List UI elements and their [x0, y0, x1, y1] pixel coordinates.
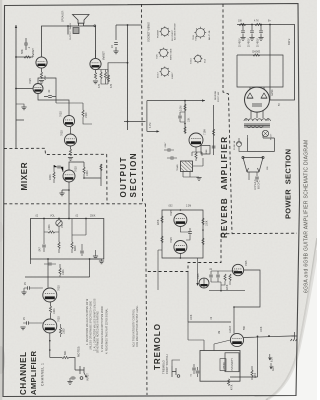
resistor mixer right	[100, 164, 102, 171]
wire to jack	[69, 358, 80, 371]
phase shift cap 2	[216, 271, 220, 282]
svg-text:100K: 100K	[62, 269, 65, 275]
wire transformer taps	[246, 118, 268, 138]
filter cap 3	[258, 25, 263, 41]
svg-text:1M: 1M	[219, 331, 221, 334]
output transformer T1	[73, 28, 79, 34]
foot switch jack	[172, 366, 180, 377]
potentiometer volume	[56, 219, 62, 227]
resistor V1a plate load	[59, 324, 61, 337]
resistor V6 cathode	[195, 152, 197, 159]
svg-text:CHANNEL: CHANNEL	[19, 352, 28, 395]
resistor feedback	[24, 56, 31, 58]
dashed power divider	[223, 4, 232, 234]
resistor power divider r2	[255, 23, 262, 25]
label 10K power	[238, 21, 272, 23]
wire reverb mid rail	[184, 101, 186, 134]
wire reverb pan link	[193, 158, 204, 166]
wire rectifier pins	[250, 87, 264, 118]
ground mixer	[59, 193, 64, 196]
junction B+	[127, 24, 129, 122]
filter cap 2	[249, 25, 254, 41]
wire ground PI link	[16, 104, 24, 107]
svg-text:INPUT: INPUT	[86, 373, 90, 381]
junction feedback dots	[15, 56, 17, 89]
ground V5	[93, 81, 98, 84]
phase inverter V3a	[33, 84, 43, 94]
svg-text:220K: 220K	[49, 174, 52, 180]
capacitor B+ filter	[114, 25, 118, 51]
wire rev rec mids	[180, 227, 190, 259]
resistor screen 2	[104, 72, 106, 79]
svg-text:100K: 100K	[53, 308, 56, 314]
wire mixer plate	[69, 162, 84, 170]
svg-text:FUSE 1A: FUSE 1A	[233, 140, 236, 150]
capacitor trem box 1	[192, 364, 196, 374]
svg-text:2.2M: 2.2M	[186, 206, 191, 208]
svg-text:220K: 220K	[158, 219, 160, 225]
label 115V	[254, 179, 261, 190]
capacitor reverb out2	[167, 156, 177, 160]
svg-text:250: 250	[43, 75, 47, 80]
svg-text:6V6GT: 6V6GT	[31, 48, 35, 57]
power top bus wire	[237, 25, 295, 101]
svg-text:INTENSITY: INTENSITY	[231, 358, 234, 371]
socket view 4	[194, 27, 206, 39]
phase shift resistor 1	[224, 274, 226, 281]
junction OT	[67, 25, 69, 27]
arrow rev out	[196, 283, 198, 286]
label trem labels top	[191, 314, 263, 334]
phase shift resistor 2	[229, 274, 231, 281]
wire V3b to V2	[70, 127, 72, 134]
svg-text:100K: 100K	[261, 326, 263, 332]
wire B+ top link	[116, 24, 142, 26]
reverb recovery loop wire	[162, 210, 203, 258]
wire PI cathode	[38, 94, 69, 116]
svg-text:7025: 7025	[245, 260, 248, 266]
screen resistor cluster bus	[96, 70, 108, 73]
ground chassis right	[291, 332, 298, 341]
junction power bus dots	[242, 24, 271, 26]
resistor 68K input	[62, 356, 69, 358]
power tube V4 6V6	[36, 57, 47, 68]
ground tone	[93, 256, 98, 259]
wire screens to B+	[108, 63, 128, 84]
ground B+ cap	[113, 51, 118, 54]
wire speaker terminal	[84, 25, 94, 27]
wire V5 cathode	[95, 70, 97, 73]
svg-text:NOTES:: NOTES:	[77, 346, 81, 357]
tremolo control inner box 2	[220, 359, 226, 371]
filter cap 1	[240, 25, 245, 41]
wire rev down to trem	[158, 250, 198, 290]
svg-text:WIRE SIDE: WIRE SIDE	[171, 48, 173, 60]
svg-text:AB 4T 4B: AB 4T 4B	[208, 30, 211, 40]
coupling cap PI to V4	[44, 96, 56, 98]
label socket1 right	[172, 23, 177, 41]
ground V4	[39, 81, 44, 84]
junction mixer dots	[68, 177, 85, 191]
svg-text:100K: 100K	[207, 220, 209, 226]
tremolo out tube V8c	[230, 333, 243, 346]
capacitor tone 1	[42, 245, 46, 252]
resistor tone h	[44, 231, 59, 233]
arrow feedback top	[15, 25, 17, 28]
channel triode V1b	[43, 288, 57, 302]
junction channel dots	[47, 258, 90, 260]
svg-text:.047: .047	[39, 247, 42, 252]
wire channel bus top	[31, 259, 90, 266]
dashed power bottom	[221, 232, 297, 235]
capacitor reverb right	[212, 146, 216, 148]
wire trem mid	[209, 288, 245, 291]
svg-text:SPEAKER: SPEAKER	[62, 10, 65, 22]
label OUTPUT SECTION	[119, 153, 138, 197]
capacitor tone 2	[80, 247, 84, 256]
wire rect right	[269, 25, 271, 101]
power transformer T2	[244, 119, 270, 128]
svg-text:1500: 1500	[63, 328, 66, 334]
label 6.3V arrow a	[269, 354, 274, 362]
wire tone mid	[44, 219, 59, 245]
resistor below box	[227, 379, 229, 386]
svg-text:5V: 5V	[279, 103, 281, 106]
wire V1b cathode left	[24, 288, 43, 292]
resistor rev rec r4	[202, 238, 204, 245]
svg-text:6G9A and 6G9B GUITAR AMPLIFIE: 6G9A and 6G9B GUITAR AMPLIFIER SCHEMATIC…	[304, 140, 310, 293]
svg-text:100K: 100K	[86, 170, 89, 176]
wire channel ladder	[25, 266, 90, 288]
capacitor C20	[24, 38, 28, 50]
capacitor reverb out1	[164, 148, 174, 152]
svg-text:7025: 7025	[195, 35, 197, 41]
wire AC plug	[249, 172, 257, 180]
page curl white area bottom right	[266, 238, 317, 400]
note 2	[93, 298, 99, 353]
svg-text:POWER: POWER	[158, 29, 160, 38]
ground jack	[67, 382, 72, 385]
wire grid horizontal	[50, 357, 62, 359]
svg-text:20 450V: 20 450V	[249, 38, 251, 47]
svg-text:REVERB AMPLIFIER: REVERB AMPLIFIER	[220, 137, 229, 238]
wire tone gnd link	[95, 250, 97, 256]
label tremolo foot switch	[162, 354, 170, 374]
speaker SP1	[73, 15, 90, 27]
input jack J1	[80, 366, 87, 379]
svg-text:GZ34: GZ34	[270, 89, 274, 96]
wire mixer cathode	[62, 182, 69, 193]
tremolo osc right wire	[234, 270, 260, 333]
svg-text:SOCKET VIEWS: SOCKET VIEWS	[147, 22, 151, 42]
dashed divider mixer top step	[4, 148, 107, 154]
wire feedback taps	[16, 57, 33, 120]
reverb triode V7b	[174, 241, 187, 254]
svg-text:100K: 100K	[48, 224, 51, 230]
wire PI plate	[38, 78, 56, 103]
svg-text:6800: 6800	[74, 245, 77, 251]
wire V1a down	[49, 333, 51, 358]
svg-text:20 450V: 20 450V	[240, 38, 242, 47]
wire mixer down to tone bus	[68, 190, 70, 219]
svg-text:10K: 10K	[188, 117, 191, 122]
resistor tone v2	[71, 235, 73, 253]
arrow reverb left	[157, 130, 160, 132]
svg-text:CHOKE: CHOKE	[252, 52, 261, 54]
junction reverb top	[184, 100, 186, 102]
resistor rev rec r3	[202, 218, 204, 225]
channel triode V1a	[43, 319, 57, 333]
svg-text:AMP: AMP	[272, 365, 275, 371]
svg-text:7025: 7025	[197, 273, 200, 279]
svg-text:460 V.: 460 V.	[288, 38, 291, 45]
svg-text:470: 470	[110, 83, 113, 88]
svg-text:FOOT SW: FOOT SW	[218, 91, 220, 102]
wire mixer out right	[84, 164, 101, 186]
wire tone links	[72, 219, 86, 248]
label CHANNEL AMPLIFIER	[19, 350, 38, 395]
svg-text:OTHERWISE NOTED 600 V RATING: OTHERWISE NOTED 600 V RATING	[97, 311, 100, 353]
capacitor mixer in	[54, 165, 63, 172]
ground reverb trans	[196, 178, 201, 181]
resistor channel r1	[59, 264, 61, 277]
wire trem out right	[230, 336, 295, 377]
svg-text:7025: 7025	[28, 78, 32, 84]
svg-text:.002: .002	[168, 206, 173, 208]
svg-text:MIXER: MIXER	[20, 162, 29, 190]
resistor HT choke	[253, 54, 260, 56]
svg-text:220K: 220K	[227, 284, 229, 290]
wire OT center tap	[67, 26, 69, 35]
tremolo osc tube V8b	[232, 264, 243, 275]
dashed divider output/reverb	[142, 4, 143, 204]
resistor trem right	[251, 366, 253, 380]
svg-text:7025: 7025	[74, 166, 78, 172]
svg-text:7025: 7025	[57, 316, 61, 322]
resistor mixer grid	[53, 165, 55, 183]
resistor mixer plate	[83, 167, 85, 178]
phase shift cap 1	[209, 271, 213, 282]
svg-text:7025: 7025	[60, 130, 64, 136]
arrow reverb wire	[202, 99, 205, 101]
socket view 3	[160, 67, 171, 78]
reverb triode V7a	[174, 214, 187, 227]
wire V2b cathode resistor	[68, 146, 73, 160]
capacitor trem box 2	[196, 367, 200, 377]
feedback rail wire	[15, 25, 17, 148]
svg-text:20 450V: 20 450V	[258, 38, 260, 47]
wire screen join	[101, 79, 108, 84]
wire V6 cathode cluster	[192, 147, 202, 161]
svg-text:AMPLIFIER: AMPLIFIER	[29, 350, 38, 395]
svg-text:TRIAD: TRIAD	[176, 164, 179, 171]
svg-text:1500: 1500	[85, 112, 88, 118]
left scan edge shading	[0, 0, 2, 400]
triode V2b	[65, 134, 77, 146]
primary loop wire	[248, 138, 275, 151]
socket view 5	[193, 54, 202, 63]
svg-text:4.7K: 4.7K	[254, 21, 259, 23]
capacitor channel c1	[44, 263, 56, 265]
tone stack loop wire	[31, 219, 104, 260]
resistor V4 cathode	[40, 72, 42, 79]
svg-text:7025: 7025	[156, 53, 158, 59]
svg-text:VOL: VOL	[50, 215, 55, 218]
svg-text:CHANNEL 1: CHANNEL 1	[41, 363, 45, 386]
svg-text:3.3M: 3.3M	[180, 106, 183, 111]
svg-text:PILOT: PILOT	[271, 133, 273, 140]
svg-text:56K: 56K	[244, 325, 246, 330]
rectifier tube V9	[245, 87, 270, 112]
resistor rev rec r2	[161, 236, 163, 243]
wire foot switch	[172, 360, 180, 366]
svg-text:6CG7: 6CG7	[158, 72, 160, 78]
svg-text:6.3V: 6.3V	[271, 357, 274, 362]
svg-text:100K: 100K	[191, 314, 193, 320]
wire reverb left rail	[147, 101, 157, 132]
svg-text:470: 470	[98, 83, 101, 88]
svg-text:UNLESS OTHERWISE SPECIFIED K=1: UNLESS OTHERWISE SPECIFIED K=1000	[89, 300, 92, 350]
svg-text:6L6 6V6GT: 6L6 6V6GT	[172, 29, 174, 41]
ground PI	[21, 107, 26, 110]
svg-text:SECTION: SECTION	[129, 153, 138, 197]
wire channel gnd link	[90, 259, 102, 261]
resistor reverb r1	[184, 104, 186, 111]
svg-text:REVERB: REVERB	[215, 90, 217, 100]
svg-text:470K: 470K	[232, 384, 234, 390]
dashed output section left	[106, 154, 108, 204]
junction trem out	[257, 335, 270, 337]
svg-text:4.7M: 4.7M	[149, 123, 152, 128]
wire plate bus	[42, 26, 96, 58]
wire HT loop	[237, 55, 283, 87]
reverb transformer T3	[181, 161, 193, 172]
capacitor reverb c1	[178, 112, 185, 122]
junction tone bus dots	[43, 218, 87, 220]
wire reverb bottom caps	[183, 172, 199, 178]
terminal circle	[94, 25, 96, 27]
note 1	[86, 298, 92, 350]
svg-text:3. VOLTAGES READ WITH VTVM 20: 3. VOLTAGES READ WITH VTVM 20000	[101, 305, 104, 352]
pilot lamp	[262, 130, 268, 136]
resistor PI tail	[82, 103, 84, 120]
capacitor ch bypass 1	[24, 286, 33, 290]
wire trem verticals bottom	[188, 322, 230, 351]
svg-text:GZ34: GZ34	[191, 58, 193, 64]
reverb driver tube V6	[189, 133, 203, 147]
mixer triode V2a	[63, 170, 75, 182]
tremolo control inner box 1	[225, 353, 239, 372]
resistor power divider r1	[239, 23, 246, 25]
tremolo control outer box	[200, 351, 240, 382]
socket view 2	[158, 48, 169, 59]
power tube V5 6V6	[90, 58, 101, 69]
svg-text:PAN: PAN	[205, 149, 208, 154]
resistor tone v1	[58, 242, 60, 253]
fuse	[236, 138, 247, 151]
resistor reverb r2	[184, 127, 186, 134]
svg-text:OUTPUT TRANS: OUTPUT TRANS	[69, 23, 72, 40]
label socket4 top	[193, 34, 198, 41]
svg-text:4. READINGS TAKEN AT ZERO SIG: 4. READINGS TAKEN AT ZERO SIGNAL	[105, 308, 108, 354]
svg-text:7025: 7025	[57, 285, 61, 291]
resistor screen 3	[107, 75, 109, 82]
svg-text:SPEED: SPEED	[223, 362, 225, 370]
junction reverb mid	[184, 123, 186, 125]
B+ rail	[127, 25, 129, 130]
ground ch bypass2	[20, 327, 25, 330]
capacitor rev rec c1	[188, 228, 192, 237]
dashed reverb bottom steps	[146, 234, 221, 272]
svg-text:12AX7: 12AX7	[171, 72, 174, 79]
svg-text:6V6GT: 6V6GT	[102, 51, 106, 60]
ground ch bypass1	[21, 292, 26, 295]
svg-text:12AX7: 12AX7	[229, 325, 232, 333]
svg-text:2200: 2200	[255, 372, 257, 378]
svg-text:7025: 7025	[169, 210, 173, 216]
svg-text:7199: 7199	[203, 129, 207, 135]
svg-text:68K: 68K	[64, 350, 67, 355]
resistor reverb right	[213, 129, 215, 136]
dashed mixer bottom	[4, 203, 146, 205]
label tone small texts	[35, 216, 96, 218]
tremolo triode V8a	[199, 278, 209, 288]
svg-text:10K: 10K	[238, 21, 243, 23]
wire reverb right rail	[213, 105, 215, 155]
margin note tremolo	[133, 305, 140, 347]
label 6.3V arrow b	[270, 363, 275, 371]
svg-text:250K: 250K	[90, 216, 96, 218]
ground channel top	[99, 261, 104, 264]
socket view 1	[160, 26, 171, 37]
triode V3b	[63, 115, 74, 126]
svg-text:AS SEEN FROM: AS SEEN FROM	[174, 23, 177, 40]
dashed tremolo left	[146, 204, 148, 395]
wire phase net	[211, 271, 238, 288]
svg-text:.0047: .0047	[165, 142, 167, 148]
junction rev rec	[180, 209, 204, 259]
wire grid bias V5	[56, 50, 96, 124]
label reverb foot switch	[215, 90, 220, 102]
capacitor ch bypass 2	[23, 321, 43, 325]
junction trem	[220, 290, 235, 308]
svg-text:1M: 1M	[61, 225, 64, 228]
capacitor line	[255, 177, 259, 182]
resistor interstage	[49, 302, 51, 319]
wire reverb feed	[124, 121, 146, 123]
svg-text:56K: 56K	[20, 49, 24, 54]
svg-text:7025: 7025	[169, 237, 173, 243]
resistor screen 1	[100, 72, 102, 79]
resistor rev rec r1	[161, 216, 163, 223]
junction V1a dots	[49, 340, 51, 351]
reverb pan box	[201, 146, 210, 155]
power switch	[242, 156, 264, 172]
svg-text:60 CYC.: 60 CYC.	[258, 180, 261, 189]
svg-text:FOR MAX DEPTH AT OUTPUT LEVEL: FOR MAX DEPTH AT OUTPUT LEVEL	[136, 305, 139, 347]
resistor V5 cathode	[94, 73, 96, 80]
svg-text:7025: 7025	[59, 111, 63, 117]
tremolo top wire	[188, 272, 231, 322]
capacitor jack	[70, 376, 76, 381]
wire V4 cathode	[41, 68, 43, 72]
svg-text:FOOT SWITCH: FOOT SWITCH	[165, 354, 169, 374]
reverb input wire	[147, 100, 205, 102]
svg-text:POWER SECTION: POWER SECTION	[284, 149, 293, 219]
